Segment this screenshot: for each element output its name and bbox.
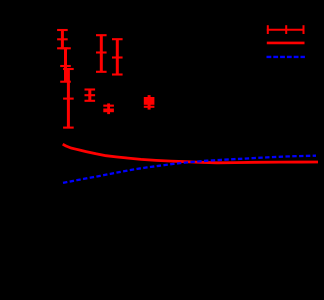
- legend: data error-bar sample: [267, 25, 305, 34]
- error bar point G (short bar, plus-marker stubs visible): [103, 103, 114, 114]
- blue dashed theory curve: [63, 156, 316, 183]
- error bar point E: [112, 39, 123, 74]
- legend: blue dashed line sample: [267, 56, 305, 58]
- red solid theory curve: [63, 144, 318, 163]
- error bar point A: [57, 30, 68, 48]
- error bar point C: [63, 69, 74, 128]
- error bar point F: [85, 90, 96, 101]
- legend: red solid line sample: [267, 42, 305, 45]
- error bar point H (dense cluster block, plus-marker stubs visible): [144, 95, 155, 110]
- error bar point B: [60, 48, 71, 81]
- error bar point D: [96, 35, 107, 72]
